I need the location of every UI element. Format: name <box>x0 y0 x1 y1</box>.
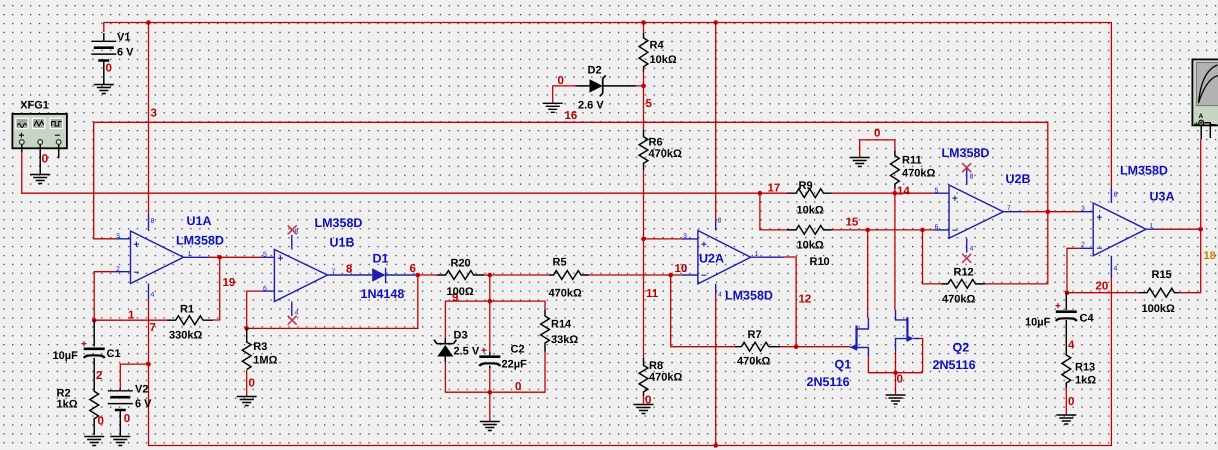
ground XFG1 <box>30 175 50 184</box>
svg-text:0: 0 <box>897 374 903 386</box>
wire net 9 box around D3 C2 <box>445 301 545 392</box>
svg-text:2: 2 <box>116 266 120 273</box>
wire net 9 C2 top <box>489 275 491 352</box>
wire net 11 to U2A pin3 <box>644 238 683 240</box>
svg-text:+: + <box>952 194 958 205</box>
diode D1 <box>349 252 418 302</box>
svg-text:470kΩ: 470kΩ <box>942 294 975 306</box>
svg-text:2N5116: 2N5116 <box>807 375 850 389</box>
svg-text:1: 1 <box>128 310 135 322</box>
svg-text:R11: R11 <box>902 155 922 167</box>
svg-text:3: 3 <box>151 108 157 120</box>
svg-text:+: + <box>701 240 707 251</box>
junction net12 <box>794 344 799 349</box>
svg-text:12: 12 <box>799 294 812 306</box>
svg-text:D2: D2 <box>588 65 602 77</box>
wire net 0 Q1 source Q2 bottom <box>868 339 922 395</box>
wire net 17 drop to R10 <box>760 193 787 230</box>
junction net6 D1 <box>416 273 421 278</box>
resistor R8 <box>639 358 682 405</box>
op-amp U2A <box>682 218 784 303</box>
svg-text:330kΩ: 330kΩ <box>169 330 202 342</box>
wire net 16 rail U1A+ to R12 <box>94 122 1048 284</box>
svg-text:6 V: 6 V <box>117 47 134 59</box>
svg-text:3: 3 <box>1081 206 1085 213</box>
svg-text:10kΩ: 10kΩ <box>797 240 824 252</box>
wire net 15 to R12 left <box>923 230 942 284</box>
transistor Q1 2N5116 <box>807 318 869 389</box>
resistor R10 <box>787 226 832 269</box>
svg-text:16: 16 <box>565 110 578 122</box>
junction top rail net3 <box>146 20 151 25</box>
junction net20 <box>1065 290 1070 295</box>
resistor R7 <box>735 329 780 368</box>
svg-text:R5: R5 <box>553 257 567 269</box>
svg-text:R6: R6 <box>649 137 663 149</box>
svg-text:R13: R13 <box>1075 362 1095 374</box>
junction net1 <box>92 318 97 323</box>
op-amp U2B <box>934 146 1031 253</box>
junction net6 R3 <box>244 326 249 331</box>
svg-text:8: 8 <box>1114 192 1118 199</box>
svg-text:0: 0 <box>42 152 49 166</box>
resistor R20 <box>437 258 484 299</box>
svg-text:LM358D: LM358D <box>942 146 990 160</box>
svg-text:8: 8 <box>346 264 353 276</box>
capacitor C4 <box>1025 293 1094 352</box>
svg-text:470kΩ: 470kΩ <box>549 288 582 300</box>
svg-text:10kΩ: 10kΩ <box>797 205 824 217</box>
wire net 0 D2 anode ground stub <box>553 86 576 103</box>
svg-text:470kΩ: 470kΩ <box>737 356 770 368</box>
wire net 16 U2B out to U3A+ <box>1023 211 1080 213</box>
svg-text:4: 4 <box>151 292 155 299</box>
wire R5 to U2A pin2 <box>589 274 682 276</box>
junction net19 <box>217 255 222 260</box>
svg-text:2.5 V: 2.5 V <box>454 346 480 358</box>
svg-text:470kΩ: 470kΩ <box>902 168 935 180</box>
resistor R5 <box>549 257 589 300</box>
resistor R6 <box>639 130 682 170</box>
svg-text:R12: R12 <box>954 267 974 279</box>
svg-text:D1: D1 <box>373 252 389 266</box>
junction net16 U2B out <box>1046 209 1051 214</box>
svg-text:1: 1 <box>188 251 192 258</box>
svg-text:4: 4 <box>1068 340 1075 352</box>
junction net7 V2 <box>146 362 151 367</box>
svg-text:0: 0 <box>558 75 564 87</box>
resistor R3 <box>242 328 277 396</box>
X mark U2B pin8 <box>962 163 971 172</box>
wire R11 bottom lead red <box>894 189 896 194</box>
svg-text:U2A: U2A <box>699 252 724 266</box>
wire net 12 U2A out to R7 Q1 gate <box>780 257 850 347</box>
svg-text:470kΩ: 470kΩ <box>649 372 682 384</box>
svg-text:+: + <box>1097 213 1103 224</box>
wire net 17 XFG1 to R9 <box>22 153 787 194</box>
svg-text:0: 0 <box>1068 396 1074 408</box>
wire net 11 column R6 to R8 <box>643 170 645 358</box>
ground C2 box <box>480 422 500 431</box>
oscilloscope probe instrument <box>1192 59 1218 139</box>
junction net14 <box>893 191 898 196</box>
junction net11 <box>641 237 646 242</box>
svg-text:22µF: 22µF <box>502 359 528 371</box>
svg-text:R7: R7 <box>748 329 762 341</box>
svg-text:1: 1 <box>755 251 759 258</box>
wire net 20 U3A minus to C4 R15 <box>1067 229 1201 293</box>
svg-text:1N4148: 1N4148 <box>361 287 405 301</box>
svg-text:Q2: Q2 <box>953 341 970 355</box>
svg-text:6: 6 <box>263 286 267 293</box>
svg-text:470kΩ: 470kΩ <box>649 148 682 160</box>
svg-text:C1: C1 <box>107 348 121 360</box>
svg-text:+: + <box>1194 120 1199 129</box>
svg-text:10kΩ: 10kΩ <box>650 54 677 66</box>
svg-text:17: 17 <box>768 183 781 195</box>
wire net 0 R11 to ground <box>860 140 895 157</box>
X mark U1B pin4 <box>288 316 297 325</box>
wire net 18 U3A out <box>1158 228 1201 230</box>
svg-text:20: 20 <box>1096 281 1109 293</box>
svg-text:+: + <box>134 240 140 251</box>
svg-text:+: + <box>481 346 487 357</box>
resistor R13 <box>1062 352 1096 415</box>
svg-text:100Ω: 100Ω <box>447 286 474 298</box>
svg-text:2: 2 <box>683 267 687 274</box>
capacitor C2 <box>479 344 527 371</box>
svg-text:LM358D: LM358D <box>315 216 363 230</box>
svg-text:5: 5 <box>263 252 267 259</box>
svg-text:5: 5 <box>935 188 939 195</box>
svg-text:XFG1: XFG1 <box>20 100 49 112</box>
ground R13 <box>1056 415 1076 424</box>
ground Q1 Q2 <box>886 395 906 404</box>
junction net10 <box>668 273 673 278</box>
resistor R15 <box>1139 269 1179 315</box>
resistor R2 <box>57 388 99 436</box>
svg-text:19: 19 <box>223 277 236 289</box>
svg-text:+: + <box>81 339 87 350</box>
svg-text:2.6 V: 2.6 V <box>578 100 604 112</box>
wire D1 to R20 <box>418 274 437 276</box>
wire net 7 bottom rail <box>149 278 1112 446</box>
svg-text:0: 0 <box>874 128 880 140</box>
junction net9 top <box>488 273 493 278</box>
svg-text:8: 8 <box>718 218 722 225</box>
svg-text:−: − <box>1211 120 1216 130</box>
ground V1 <box>94 85 114 94</box>
ground R8 <box>634 405 654 414</box>
svg-text:0: 0 <box>124 413 130 425</box>
junction net7 U2A pin4 <box>713 443 718 448</box>
svg-text:3: 3 <box>683 233 687 240</box>
svg-text:14: 14 <box>897 186 910 198</box>
svg-text:C2: C2 <box>511 344 525 356</box>
svg-text:R1: R1 <box>180 304 194 316</box>
svg-text:100kΩ: 100kΩ <box>1142 303 1175 315</box>
ground D2 <box>543 103 563 112</box>
svg-text:V2: V2 <box>135 384 148 396</box>
junction net18 <box>1198 227 1203 232</box>
svg-text:R3: R3 <box>253 341 267 353</box>
svg-text:LM358D: LM358D <box>1120 164 1168 178</box>
capacitor C1 <box>53 320 121 389</box>
svg-text:V1: V1 <box>117 32 130 44</box>
junction net9 box <box>488 299 493 304</box>
resistor R11 <box>891 151 936 189</box>
wire net 3 drop to U2A pin8 <box>715 23 717 221</box>
wire net 1 U1A minus to R1 <box>94 272 167 321</box>
resistor R9 <box>787 180 832 217</box>
transistor Q2 2N5116 <box>896 310 976 372</box>
svg-text:7: 7 <box>332 269 336 276</box>
junction net15 Q1 <box>865 228 870 233</box>
wire net19 to U1B pin5 <box>220 256 262 258</box>
ground R11 <box>850 158 870 167</box>
svg-text:2: 2 <box>1081 242 1085 249</box>
resistor R12 <box>941 267 985 306</box>
svg-text:R10: R10 <box>810 256 830 268</box>
svg-text:0: 0 <box>98 416 104 428</box>
svg-text:LM358D: LM358D <box>725 289 773 303</box>
X mark U2B pin4 <box>962 254 971 263</box>
wire net 10 drop to R7 <box>671 275 735 347</box>
svg-text:8: 8 <box>970 174 974 181</box>
svg-text:6: 6 <box>935 224 939 231</box>
svg-text:1kΩ: 1kΩ <box>1075 375 1096 387</box>
svg-text:A: A <box>1199 113 1204 120</box>
svg-text:R15: R15 <box>1152 269 1172 281</box>
resistor R14 <box>541 310 579 352</box>
wire net 15 drop to Q1 drain <box>867 230 869 318</box>
op-amp U1B <box>262 216 363 317</box>
svg-text:0: 0 <box>106 63 112 75</box>
function generator XFG1 <box>12 100 67 175</box>
svg-text:−: − <box>278 287 284 298</box>
svg-text:10µF: 10µF <box>53 350 79 362</box>
wire net 5 D2 cathode to R4 R6 <box>636 23 644 131</box>
X mark U1B pin8 <box>288 225 297 234</box>
svg-text:18: 18 <box>1204 250 1216 262</box>
svg-text:5: 5 <box>646 98 653 110</box>
svg-text:−: − <box>1097 244 1103 255</box>
svg-text:15: 15 <box>846 217 859 229</box>
junction U2A pin8 drop top rail <box>713 20 718 25</box>
svg-text:7: 7 <box>1007 205 1011 212</box>
svg-text:+: + <box>1055 301 1061 312</box>
junction net0 box <box>488 390 493 395</box>
ground R3 <box>237 397 257 406</box>
wire net 18 scope drop <box>1200 139 1202 229</box>
battery V2 <box>108 384 152 437</box>
wire net 3 drop to U1A pin8 <box>148 23 150 214</box>
wire net 6 feedback D1 to U1B pin6 <box>247 275 418 328</box>
svg-text:1kΩ: 1kΩ <box>57 399 78 411</box>
zener diode D2 <box>575 65 636 112</box>
svg-text:R4: R4 <box>650 40 665 52</box>
svg-text:33kΩ: 33kΩ <box>551 334 578 346</box>
svg-text:R14: R14 <box>551 319 572 331</box>
resistor R1 <box>167 304 213 342</box>
battery V1 <box>91 32 134 85</box>
junction net17 <box>758 191 763 196</box>
wire net 15 R10 to U2B pin6 <box>832 229 934 231</box>
svg-text:7: 7 <box>150 322 156 334</box>
svg-text:U2B: U2B <box>1006 172 1031 186</box>
svg-text:0: 0 <box>249 378 255 390</box>
ground R2 <box>84 437 104 446</box>
svg-text:+: + <box>278 254 284 265</box>
op-amp U1A <box>116 214 224 300</box>
svg-text:−: − <box>952 226 958 237</box>
svg-text:4: 4 <box>1114 266 1118 273</box>
wire net 14 drop to Q2 drain <box>894 193 896 310</box>
wire net 0 C2 bottom <box>489 368 491 421</box>
svg-text:0: 0 <box>515 381 521 393</box>
wire R20 to R5 <box>484 274 549 276</box>
svg-text:10µF: 10µF <box>1025 317 1051 329</box>
wire net 7 link to V2 <box>120 364 148 388</box>
svg-text:C4: C4 <box>1080 313 1095 325</box>
svg-text:−: − <box>134 268 140 279</box>
svg-text:R8: R8 <box>649 360 663 372</box>
svg-text:LM358D: LM358D <box>176 234 224 248</box>
svg-text:6: 6 <box>410 263 416 275</box>
svg-text:11: 11 <box>646 288 659 300</box>
svg-text:1MΩ: 1MΩ <box>253 355 277 367</box>
junction R4 top rail <box>641 20 646 25</box>
svg-text:1: 1 <box>1150 223 1154 230</box>
svg-text:U1B: U1B <box>330 236 355 250</box>
svg-text:2: 2 <box>96 370 102 382</box>
svg-text:D3: D3 <box>454 330 468 342</box>
wire U2A pin4 drop <box>715 294 717 446</box>
svg-text:3: 3 <box>116 233 120 240</box>
junction net5 <box>641 84 646 89</box>
svg-text:6 V: 6 V <box>135 398 152 410</box>
svg-text:4: 4 <box>718 292 722 299</box>
svg-text:R20: R20 <box>451 258 471 270</box>
svg-text:−: − <box>701 271 707 282</box>
wire row U1A out to U1B pin5 net 19 <box>210 257 220 320</box>
svg-text:4: 4 <box>295 310 299 317</box>
svg-text:8: 8 <box>151 218 155 225</box>
resistor R4 <box>639 33 677 72</box>
zener diode D3 <box>434 330 480 363</box>
wire net 3 top rail V1 to U3A pin8 <box>104 23 1112 188</box>
svg-text:U1A: U1A <box>187 214 212 228</box>
svg-text:2N5116: 2N5116 <box>933 358 976 372</box>
junction net0 Q ground <box>893 370 898 375</box>
junction net15 R12 <box>920 228 925 233</box>
svg-text:U3A: U3A <box>1150 190 1175 204</box>
wire net 14 R9 to U2B pin5 <box>832 192 934 194</box>
svg-text:4: 4 <box>970 246 974 253</box>
svg-text:R9: R9 <box>799 180 813 192</box>
ground V2 <box>110 437 130 446</box>
op-amp U3A <box>1080 164 1175 278</box>
svg-text:Q1: Q1 <box>835 358 852 372</box>
